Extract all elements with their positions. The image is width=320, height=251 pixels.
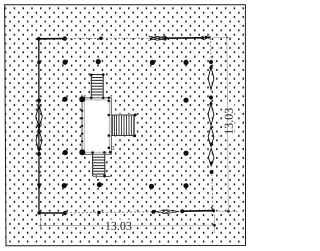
wall bottom end hook [211,207,214,210]
column r3c1 [63,150,68,155]
column r2c1 [62,97,67,102]
right stair end bar [133,115,135,136]
cella left edge dot 4 [81,133,83,135]
tick blob top [226,37,228,39]
wall left dot c [37,152,41,156]
cella outer wall [82,98,111,155]
cella top edge dot 1 [90,97,93,100]
column r4c1 [62,183,67,188]
wall bottom dashed [66,212,152,213]
wall left dot a [37,61,41,65]
wall left arrow to dot [37,148,41,154]
wall right arrow down2 [209,162,213,167]
cella left edge dot 3 [81,125,83,127]
wall top dashed segment [66,37,149,39]
wall right arrow up [209,65,213,69]
column r4c4 [183,183,188,188]
wall bottom braid [155,210,179,214]
wall top dot at 203 [201,36,204,39]
wall right dashed bottom [212,174,213,211]
wall bottom dot at 65 [63,211,67,215]
cella left edge dot 2 [81,117,83,119]
wall top small x near corner [205,36,211,40]
wall bottom dot at 99 [97,211,101,215]
wall bottom end blob [212,209,215,212]
wall right dot a [209,60,213,64]
wall left arrow down [37,184,42,191]
wall left junction x [37,125,42,133]
white mask under bottom stair [92,154,106,177]
column r3c4 [183,151,188,156]
wall bottom dot at 153 [151,210,155,214]
ext line top-right [213,36,232,38]
cella inner wall [84,100,109,152]
anta step right [111,147,114,150]
right stair rungs [112,115,114,136]
cella bottom edge dot 3 [109,151,112,154]
cella right edge dot 2 [108,114,111,117]
wall right dashed top [210,37,212,60]
cella left edge dot 5 [81,140,83,142]
wall top dot at 165 [164,37,167,40]
bottom stair dot [103,175,106,178]
wall top end arrow [205,36,211,40]
wall bottom thick segment 1 [39,212,65,214]
column r4c2 [97,182,102,187]
wall right dot b [209,95,213,99]
column r4c3 [149,184,154,189]
bottom stair left rail [92,154,94,176]
bottom stair end tick [95,175,97,179]
wall top braid cross [149,36,167,40]
wall top corner dot [37,37,41,41]
cella right edge dot 1 [108,100,111,103]
cella top edge dot 2 [102,97,105,100]
bottom stair rungs [93,156,105,158]
wall left: solid line [38,39,40,213]
white mask under central building [81,97,113,156]
right stair dot bottom [133,134,136,137]
dim line right [227,38,228,212]
ext line bottom-left [39,215,41,231]
wall top thick segment 2 [165,37,203,39]
top stair right rail [102,75,104,98]
cella corner dot bottom-left [79,149,85,155]
wall left tick [39,171,41,173]
paper background [0,0,250,251]
column r1c3 [150,60,155,65]
tick blob right [213,224,216,227]
ext line bottom-right2 [216,210,239,212]
right stair top rail [111,114,135,116]
wall left lens 1 [36,106,43,128]
wall right arrow up2 [209,101,213,105]
wall bottom corner dot [37,211,41,215]
cella corner dot top-left [79,96,85,102]
top stair dot right [102,73,105,76]
top stair left rail [90,75,92,98]
wall top dot at 65 [63,36,67,40]
tick top [226,35,228,40]
wall left dot b [37,99,41,103]
bottom stair bottom rail extended [93,175,111,177]
cella bottom edge dot 2 [103,151,106,154]
ext line bottom-right [213,215,215,234]
column r2c4 [183,98,188,103]
wall right lens 4 [208,149,214,167]
wall top thin end [203,36,211,39]
cella right edge dot 4 [108,147,111,150]
cella corner stub [81,95,83,99]
column r1c2 [96,59,101,64]
wall left arrowhead top [37,104,42,109]
white halo for right dimension text [223,103,235,140]
cella left edge dot 1 [81,110,83,112]
column r1c4 [183,60,188,65]
dim line bottom [41,224,215,226]
bottom dim text [106,222,131,230]
tick blob bottom [227,210,230,213]
top stair rungs [91,74,103,76]
top stair dot left [90,74,93,77]
wall right lens 1 [208,67,214,90]
wall top braid [150,36,166,40]
white halo for bottom dimension text [104,220,135,232]
cella right edge dot 3 [108,134,111,137]
wall left lens 2 [36,130,42,151]
wall top thick segment 1 [39,38,65,40]
wall right arrow down [209,143,213,148]
wall top dot at 101 [99,37,103,41]
right stair dot top [134,114,137,117]
cella top edge dot 3 [108,97,111,100]
wall right dot c [210,170,214,174]
outer border frame [5,5,246,246]
white mask under right stair [111,114,136,137]
bottom stair right rail [104,154,106,176]
tick left [38,224,43,226]
column r1c1 [63,60,68,65]
wall bottom thick segment 2 [182,210,214,213]
wall bottom dot at 182 [180,209,184,213]
tick blob left [40,224,42,226]
wall right lens 2 [208,104,214,126]
cella bottom edge dot 1 [91,151,94,154]
right dim text [225,108,233,133]
white mask under top stair [90,74,104,98]
wall right lens 3 [208,127,214,147]
right stair bottom rail [111,135,135,137]
wall bottom braid arrows [163,210,170,214]
stippled ground [5,5,245,245]
